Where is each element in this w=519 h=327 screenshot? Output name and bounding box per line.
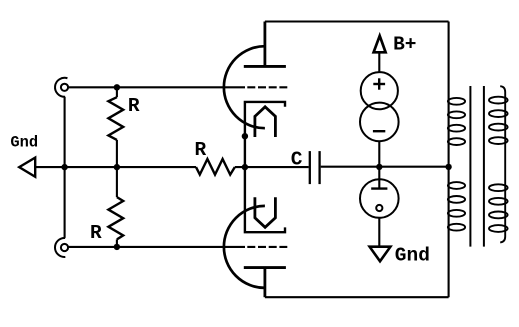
svg-text:B+: B+: [393, 33, 416, 55]
svg-text:Gnd: Gnd: [10, 134, 38, 152]
svg-text:R: R: [90, 222, 102, 244]
svg-text:C: C: [291, 148, 303, 170]
svg-text:R: R: [195, 139, 207, 161]
svg-text:Gnd: Gnd: [395, 244, 430, 266]
svg-text:R: R: [128, 95, 140, 117]
